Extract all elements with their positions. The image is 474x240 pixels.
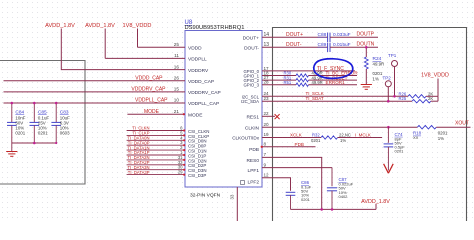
svg-text:PDB: PDB xyxy=(249,147,259,153)
svg-text:0.033uF: 0.033uF xyxy=(333,32,351,38)
svg-text:1%: 1% xyxy=(438,136,444,141)
svg-text:VDDDRV_CAP: VDDDRV_CAP xyxy=(131,87,166,93)
svg-text:TP2: TP2 xyxy=(383,76,392,81)
svg-text:8: 8 xyxy=(264,142,267,147)
svg-text:TI_SDAT: TI_SDAT xyxy=(306,96,324,101)
svg-text:MODE: MODE xyxy=(188,112,202,118)
svg-text:TI_DATA3P: TI_DATA3P xyxy=(128,170,150,175)
svg-text:PDB: PDB xyxy=(295,142,304,147)
svg-text:LPF2: LPF2 xyxy=(248,180,260,186)
svg-text:0201: 0201 xyxy=(38,131,48,136)
svg-text:C85: C85 xyxy=(38,109,47,115)
svg-text:XCLK: XCLK xyxy=(290,133,302,138)
svg-text:0201: 0201 xyxy=(15,131,25,136)
svg-text:RES1: RES1 xyxy=(246,115,259,121)
svg-text:RES0: RES0 xyxy=(246,158,259,164)
svg-text:C84: C84 xyxy=(15,109,24,115)
svg-text:0201: 0201 xyxy=(311,138,321,143)
svg-text:VDDD_CAP: VDDD_CAP xyxy=(188,79,214,85)
svg-text:19: 19 xyxy=(264,132,270,137)
svg-text:28: 28 xyxy=(264,80,270,85)
svg-text:1V8_VDDD: 1V8_VDDD xyxy=(123,23,152,29)
svg-text:R51: R51 xyxy=(284,80,292,85)
svg-text:CSI_D3P: CSI_D3P xyxy=(188,173,206,178)
svg-text:22: 22 xyxy=(264,111,270,116)
svg-text:DOUT+: DOUT+ xyxy=(243,36,260,42)
svg-text:14: 14 xyxy=(264,32,270,38)
svg-text:AVDD_1.8V: AVDD_1.8V xyxy=(361,199,390,205)
svg-text:32-PIN VQFN: 32-PIN VQFN xyxy=(190,192,221,198)
svg-text:ERROR1: ERROR1 xyxy=(326,80,346,85)
svg-text:I_MCLK: I_MCLK xyxy=(355,132,371,137)
svg-text:0603: 0603 xyxy=(60,131,70,136)
svg-text:2K: 2K xyxy=(428,96,433,101)
svg-text:GPIO_3: GPIO_3 xyxy=(243,83,259,88)
svg-text:1V8_VDDD: 1V8_VDDD xyxy=(421,72,449,78)
svg-text:25: 25 xyxy=(174,42,180,47)
svg-text:0201: 0201 xyxy=(395,149,405,154)
svg-text:VDDD: VDDD xyxy=(188,46,202,52)
svg-text:0402: 0402 xyxy=(339,194,349,199)
svg-text:VDDPLL_CAP: VDDPLL_CAP xyxy=(188,101,219,107)
svg-text:CLKIN: CLKIN xyxy=(245,125,260,131)
svg-text:11: 11 xyxy=(174,53,179,58)
svg-text:13: 13 xyxy=(264,42,270,48)
svg-text:29: 29 xyxy=(178,170,183,175)
svg-text:DOUT-: DOUT- xyxy=(286,42,302,48)
svg-text:XOUT: XOUT xyxy=(455,121,469,127)
svg-text:49.9R: 49.9R xyxy=(373,62,385,67)
svg-text:15: 15 xyxy=(174,87,180,92)
svg-text:AVDD_1.8V: AVDD_1.8V xyxy=(45,23,75,29)
svg-text:VDDDRV_CAP: VDDDRV_CAP xyxy=(188,90,221,96)
svg-text:XX: XX xyxy=(413,135,419,140)
svg-text:DOUT+: DOUT+ xyxy=(286,32,303,38)
svg-text:C88: C88 xyxy=(318,32,327,38)
svg-text:1%: 1% xyxy=(340,138,346,143)
svg-text:10: 10 xyxy=(174,98,180,103)
svg-text:1%: 1% xyxy=(373,77,379,82)
svg-text:0201: 0201 xyxy=(438,131,448,136)
svg-text:0201: 0201 xyxy=(301,197,311,202)
svg-text:VDDPLL_CAP: VDDPLL_CAP xyxy=(135,98,168,104)
svg-text:AVDD_1.8V: AVDD_1.8V xyxy=(85,23,115,29)
svg-text:R32: R32 xyxy=(312,132,320,137)
svg-text:0.015uF: 0.015uF xyxy=(333,42,351,48)
svg-text:7: 7 xyxy=(264,152,267,157)
svg-text:VDDD_CAP: VDDD_CAP xyxy=(135,75,163,81)
svg-text:MODE: MODE xyxy=(144,109,160,115)
svg-text:VDDPLL: VDDPLL xyxy=(188,57,207,63)
svg-text:9: 9 xyxy=(264,162,267,167)
svg-text:TP1: TP1 xyxy=(388,53,397,58)
svg-text:26: 26 xyxy=(174,75,180,80)
svg-text:12: 12 xyxy=(264,173,270,178)
svg-text:49.9R: 49.9R xyxy=(312,80,323,85)
svg-text:DS90UB953TRHBRQ1: DS90UB953TRHBRQ1 xyxy=(185,25,245,31)
svg-text:21: 21 xyxy=(174,109,180,114)
svg-text:16: 16 xyxy=(174,64,180,69)
svg-text:I2C_SDA: I2C_SDA xyxy=(241,99,259,104)
svg-text:CLKOUT/IDx: CLKOUT/IDx xyxy=(232,136,260,141)
svg-text:VDDDRV: VDDDRV xyxy=(188,68,209,74)
svg-text:20: 20 xyxy=(264,122,270,127)
svg-text:22,NC: 22,NC xyxy=(339,132,351,137)
svg-text:DOUT-: DOUT- xyxy=(244,46,259,52)
svg-text:C83: C83 xyxy=(60,109,69,115)
svg-text:C89: C89 xyxy=(318,42,327,48)
svg-text:R25: R25 xyxy=(399,96,407,101)
svg-text:0201: 0201 xyxy=(373,71,383,76)
svg-text:LPF1: LPF1 xyxy=(248,168,260,174)
svg-text:33: 33 xyxy=(230,194,235,199)
svg-text:DOUTP: DOUTP xyxy=(357,32,375,38)
